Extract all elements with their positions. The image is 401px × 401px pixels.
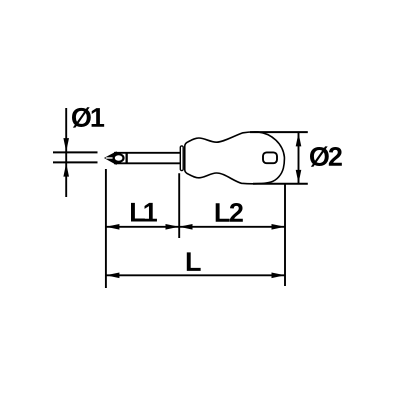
L arrow right: [272, 273, 286, 279]
dia2 arrow down: [296, 170, 302, 184]
handle body: [185, 132, 285, 184]
dia1 extension line bottom: [53, 161, 98, 163]
dia2 dim line: [298, 133, 300, 183]
dia1 arrow up: [63, 163, 69, 177]
dia2 arrow up: [296, 133, 302, 147]
dia1 dim line: [65, 108, 67, 197]
middle extension line: [178, 173, 180, 238]
dia1 extension line top: [53, 151, 98, 153]
dia1 arrow down: [63, 138, 69, 152]
right extension line: [284, 185, 286, 287]
tip junction bar: [126, 152, 128, 164]
L2 arrow right: [272, 224, 286, 230]
phillips tip ellipse: [114, 154, 124, 162]
dia2 extension line bottom: [253, 183, 308, 185]
L arrow left: [106, 273, 120, 279]
L1 arrow right: [166, 224, 180, 230]
ferrule: [180, 146, 183, 171]
L dim line: [106, 274, 285, 276]
handle hole: [263, 152, 277, 163]
dia2 extension line top: [250, 131, 308, 133]
label L1: [131, 203, 157, 222]
left extension line: [105, 169, 107, 288]
L1 arrow left: [106, 224, 120, 230]
label dia1: [72, 107, 104, 127]
L1 L2 dim line: [106, 226, 285, 228]
label L2: [216, 203, 243, 222]
label dia2: [310, 146, 342, 166]
phillips tip cone: [105, 152, 116, 164]
label L: [187, 252, 201, 271]
phillips tip slit: [106, 157, 113, 159]
screwdriver shaft: [114, 153, 180, 164]
L2 arrow left: [179, 224, 193, 230]
